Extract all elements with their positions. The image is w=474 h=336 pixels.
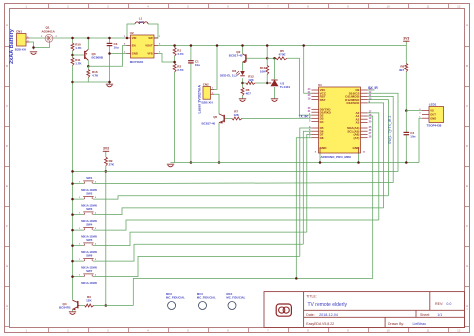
svg-text:GND: GND: [430, 116, 436, 120]
shunt reference U3 TL1431: [269, 80, 291, 89]
resistor R10: [71, 43, 74, 51]
wire C3 to ground: [109, 46, 111, 84]
resistor R1: [173, 48, 176, 57]
svg-text:RX_IR: RX_IR: [368, 86, 378, 90]
svg-text:10: 10: [386, 328, 390, 332]
wire 3V3 rail from U2 VOUT: [158, 45, 406, 47]
svg-text:VFB: VFB: [147, 52, 152, 56]
node C3 gnd: [108, 81, 111, 84]
svg-text:TITLE:: TITLE:: [306, 295, 317, 299]
svg-text:SW[1..7]+TX_IR 2: SW[1..7]+TX_IR 2: [388, 116, 392, 144]
transistor Q2 BC817-40 npn: [229, 50, 246, 63]
svg-text:2xAA Battery: 2xAA Battery: [9, 28, 15, 64]
svg-text:11: 11: [426, 4, 429, 8]
svg-text:12: 12: [457, 328, 461, 332]
svg-text:MC_FIDUCIAL: MC_FIDUCIAL: [226, 296, 245, 300]
svg-text:F: F: [6, 224, 8, 228]
node Q1 gate / gnd: [32, 46, 35, 49]
wire Q1 gate: [34, 43, 50, 47]
wire arduino GND pin right: [358, 153, 360, 163]
svg-text:D4: D4: [320, 120, 324, 124]
wire battery+ CN1 to Q1: [30, 37, 45, 39]
IR receiver LED1 TSOP4438: [419, 102, 443, 127]
resistor R3: [85, 304, 94, 307]
inductor L1: [135, 22, 148, 24]
node Q3 collector / R16 / EN: [87, 65, 90, 68]
svg-text:MC_FIDUCIAL: MC_FIDUCIAL: [166, 296, 185, 300]
wire VIN node to L1: [127, 24, 135, 38]
node rail C3: [108, 37, 111, 40]
logo mark: [276, 304, 291, 316]
svg-text:ARDUINO_PRO_MINI: ARDUINO_PRO_MINI: [321, 155, 351, 159]
node rail R10: [71, 37, 74, 40]
node gnd arduino2: [357, 161, 360, 164]
svg-text:U2: U2: [130, 31, 134, 35]
svg-text:0.0: 0.0: [446, 302, 451, 306]
svg-text:B2B-XH: B2B-XH: [15, 48, 26, 52]
ground U3: [271, 99, 278, 102]
svg-text:U1: U1: [318, 83, 322, 87]
node R9 common line: [105, 170, 108, 173]
wire R6 to ground: [242, 96, 244, 99]
svg-text:CN1: CN1: [16, 29, 22, 33]
svg-text:SW1: SW1: [86, 176, 93, 180]
node bus SW1: [71, 182, 74, 185]
svg-text:2.7K: 2.7K: [177, 68, 184, 72]
node gnd arduino1: [319, 161, 322, 164]
resistor R2: [173, 64, 176, 73]
wire R13 to R12: [266, 75, 268, 84]
switch SW5 MX1A-11NW: [79, 238, 97, 254]
svg-text:SW6: SW6: [86, 254, 93, 258]
svg-text:Sheet:: Sheet:: [420, 313, 430, 317]
node bus / R16 return: [71, 81, 74, 84]
node bus SW4: [71, 229, 74, 232]
wire SW1 left: [73, 183, 85, 185]
switch SW4 MX1A-11NW: [79, 223, 97, 239]
svg-text:27K: 27K: [109, 162, 115, 166]
power flag 3V3 right: [403, 37, 409, 42]
node bus SW7: [71, 275, 74, 278]
svg-text:Laser 3V3/27mA: Laser 3V3/27mA: [198, 85, 202, 114]
resistor R5: [276, 57, 287, 60]
wire R12 right: [255, 82, 267, 84]
node R10/R11/Q3 base: [71, 54, 74, 57]
svg-text:4E7: 4E7: [399, 68, 405, 72]
svg-text:4.7K: 4.7K: [92, 73, 99, 77]
svg-text:(A7): (A7): [353, 136, 359, 140]
svg-text:EN: EN: [132, 44, 136, 48]
wire C1 to gnd line: [190, 63, 192, 163]
wire row SW6 jog: [93, 244, 303, 261]
wire rail to Q3 emitter: [87, 38, 89, 49]
svg-text:SW: SW: [148, 36, 153, 40]
transistor Q5 BC817-40 npn: [202, 114, 225, 125]
wire row SW7 jog: [93, 256, 300, 276]
wire rail to R10: [72, 38, 74, 43]
wire 3V3 rail to R8: [405, 46, 407, 64]
connector CN1 2xAA battery: [15, 29, 30, 51]
node rail C1: [190, 44, 193, 47]
svg-text:VIN: VIN: [132, 36, 137, 40]
svg-text:GND: GND: [320, 146, 328, 150]
node bus SW2: [71, 198, 74, 201]
wire row SW3 jog: [93, 208, 384, 215]
wire SW3 left: [73, 214, 85, 216]
switch SW6 MX1A-11NW: [79, 254, 97, 270]
wire Q3 collector: [87, 60, 89, 66]
node rail R1: [173, 44, 176, 47]
resistor R13: [266, 66, 269, 75]
wire Q2 emitter to D6: [242, 62, 244, 71]
svg-text:SW2: SW2: [86, 192, 93, 196]
wire Q5 emitter to gnd line: [218, 123, 220, 163]
wire rail to C1: [190, 46, 192, 61]
svg-text:D13/SCK: D13/SCK: [347, 101, 361, 105]
title block: [264, 292, 465, 328]
wire U2 GND pin: [110, 53, 127, 55]
resistor R16: [87, 70, 90, 78]
wire SW6 left: [73, 260, 85, 262]
svg-text:GND: GND: [132, 52, 138, 56]
capacitor C1: [188, 61, 194, 63]
svg-text:11: 11: [426, 328, 429, 332]
node C1 gnd: [190, 161, 193, 164]
svg-text:TV remote elderly: TV remote elderly: [308, 302, 348, 308]
svg-text:TX_IR: TX_IR: [299, 115, 309, 119]
node Q2 base / R5 / R13: [266, 57, 269, 60]
node bus SW6: [71, 260, 74, 263]
svg-text:1.7K: 1.7K: [75, 61, 82, 65]
svg-text:470E: 470E: [278, 53, 285, 57]
ground battery: [30, 52, 37, 55]
wire row SW1: [93, 183, 393, 184]
svg-text:Drawn By:: Drawn By:: [388, 322, 404, 326]
node VS / C4: [405, 109, 408, 112]
svg-text:12K: 12K: [86, 299, 92, 303]
wire node to R5: [267, 57, 276, 59]
svg-text:VOUT: VOUT: [145, 44, 153, 48]
svg-text:3V3: 3V3: [403, 37, 409, 41]
wire row SW2 riser to D12: [368, 100, 389, 196]
svg-text:A: A: [466, 23, 468, 27]
svg-text:REV:: REV:: [435, 302, 443, 306]
transistor Q1 AO3401A pmos: [41, 26, 58, 44]
svg-text:BC817-40: BC817-40: [202, 121, 216, 125]
wire arduino GND pin left: [319, 153, 321, 163]
svg-text:TL1431: TL1431: [280, 85, 291, 89]
wire switch common bus: [72, 66, 74, 300]
ground U2 area: [106, 84, 113, 87]
wire main gnd line: [171, 162, 420, 164]
node rail laser: [216, 44, 219, 47]
node rail R13: [266, 44, 269, 47]
ground Q4: [69, 312, 76, 315]
resistor R11: [71, 58, 74, 66]
switch SW1 MX1A-11NW: [79, 176, 97, 192]
switch SW2 MX1A-11NW: [79, 192, 97, 208]
node Q5 gnd: [218, 161, 221, 164]
wire U3 anode to ground: [274, 87, 276, 99]
node R12 / R13: [266, 82, 269, 85]
svg-text:OUT: OUT: [430, 113, 436, 117]
wire row SW7 riser to D5: [300, 128, 312, 256]
wire R10 to R11: [72, 51, 74, 58]
svg-text:Date:: Date:: [306, 313, 314, 317]
resistor R12: [246, 82, 255, 85]
svg-text:LED1: LED1: [429, 102, 437, 106]
svg-text:12K: 12K: [233, 113, 239, 117]
wire rail to R1: [174, 46, 176, 48]
wire VS node to C4: [405, 111, 407, 133]
wire row SW3 riser to D13: [368, 103, 384, 208]
fiducial MC4: [226, 292, 245, 309]
node rail L1: [126, 37, 129, 40]
svg-text:TSOP4438: TSOP4438: [427, 124, 442, 128]
resistor R7: [232, 117, 242, 120]
wire SW4 left: [73, 229, 85, 231]
svg-text:10n: 10n: [410, 134, 415, 138]
wire 3V3 flag to R9: [105, 151, 107, 157]
svg-text:B: B: [6, 64, 8, 68]
wire CN1 pin2 to ground: [30, 42, 34, 50]
svg-text:1/1: 1/1: [437, 313, 442, 317]
wire row SW4 riser to A0: [368, 113, 379, 220]
wire Q5 base to R7: [225, 118, 232, 120]
svg-text:E: E: [6, 184, 8, 188]
svg-text:4.7K: 4.7K: [177, 52, 184, 56]
wire gnd line to TSOP GND: [419, 118, 422, 162]
svg-text:OED-EL 1L2: OED-EL 1L2: [220, 73, 238, 77]
LED D6 OED-EL-1L2: [220, 69, 245, 77]
svg-text:10: 10: [386, 4, 390, 8]
wire to U3 cathode: [274, 58, 276, 79]
ground main: [167, 164, 174, 167]
wire R1 to R2: [174, 56, 176, 64]
wire row SW5 jog: [93, 232, 307, 246]
wire row SW4 jog: [93, 220, 379, 230]
svg-text:B2B-XH: B2B-XH: [202, 101, 213, 105]
node VFB divider: [173, 61, 176, 64]
svg-text:B: B: [466, 64, 468, 68]
node R5 / U3: [273, 57, 276, 60]
svg-text:2018-12-04: 2018-12-04: [319, 313, 338, 317]
node U2 GND net: [108, 52, 111, 55]
wire divider to Q3 base: [73, 54, 84, 56]
resistor R8: [405, 64, 408, 72]
svg-text:12: 12: [457, 4, 461, 8]
wire stub to 3V3 flag: [405, 41, 407, 45]
svg-text:F: F: [466, 224, 468, 228]
node C4 gnd: [405, 161, 408, 164]
wire R2 to gnd line: [174, 72, 176, 163]
svg-text:AO3401A: AO3401A: [42, 29, 56, 33]
wire Q4 base to R3: [79, 305, 84, 307]
wire SW7 left: [73, 276, 85, 278]
wire row SW5 riser to D7: [307, 134, 312, 232]
svg-text:SW4: SW4: [86, 223, 93, 227]
connector CN2 laser: [202, 83, 215, 105]
fiducial MC3: [197, 292, 216, 309]
wire U2 VFB feedback: [158, 54, 175, 63]
fiducial MC2: [166, 292, 185, 309]
wire rail to C3: [109, 38, 111, 43]
wire R12 to D6 node: [243, 82, 247, 84]
svg-text:BC817-40: BC817-40: [229, 54, 243, 58]
wire rail to Q2 collector: [242, 46, 244, 54]
svg-text:D8: D8: [320, 136, 324, 140]
wire to TSOP VS pin: [406, 110, 422, 112]
svg-text:EasyEDA V5.8.22: EasyEDA V5.8.22: [306, 322, 334, 326]
wire Q4 emitter to ground: [72, 309, 74, 311]
svg-text:GND: GND: [353, 146, 361, 150]
wire SW5 left: [73, 245, 85, 247]
wire R5 to D2: [287, 58, 311, 115]
wire rail to R13: [266, 46, 268, 66]
module U1 ARDUINO_PRO_MINI: [308, 83, 372, 159]
wire laser CN2 pin1 to 3V3: [214, 46, 217, 90]
svg-text:10u: 10u: [114, 45, 119, 49]
svg-text:4u7: 4u7: [139, 20, 145, 24]
wire row SW2 jog: [93, 196, 388, 199]
svg-text:12K: 12K: [248, 78, 254, 82]
wire D9 RX_IR stub: [368, 89, 375, 91]
wire Q1 drain to U2 VIN: [54, 37, 127, 39]
wire node to R16: [87, 66, 89, 69]
svg-text:VS: VS: [430, 109, 434, 113]
node rail Q3: [87, 37, 90, 40]
switch SW3 MX1A-11NW: [79, 207, 97, 223]
wire C4 to gnd line: [405, 135, 407, 163]
svg-text:3V3: 3V3: [103, 147, 109, 151]
svg-text:MX1A-11NW: MX1A-11NW: [81, 281, 97, 285]
svg-text:SW5: SW5: [86, 238, 93, 242]
node bus SW3: [71, 213, 74, 216]
svg-text:SW3: SW3: [86, 207, 93, 211]
node rail VCC: [302, 44, 305, 47]
svg-text:10u: 10u: [195, 63, 200, 67]
wire L1 to U2 SW: [148, 24, 158, 38]
node R9 R3 line: [105, 304, 108, 307]
svg-text:E: E: [466, 184, 468, 188]
node bus common: [71, 170, 74, 173]
node rail Q2: [241, 44, 244, 47]
resistor R6: [241, 88, 244, 96]
wire Q3 collector to U2 EN: [88, 46, 126, 67]
svg-text:MC_FIDUCIAL: MC_FIDUCIAL: [197, 296, 216, 300]
wire R7 to D3 TX_IR: [242, 117, 311, 119]
node bus SW5: [71, 244, 74, 247]
svg-text:RST: RST: [320, 98, 326, 102]
wire SW2 left: [73, 198, 85, 200]
node D8 Q4 line: [295, 277, 298, 280]
wire row SW1 riser to D11: [368, 96, 394, 182]
wire R8 to TSOP VS: [405, 72, 407, 111]
wire row SW6 riser to D6: [303, 131, 311, 244]
wire D8 to Q4 line: [296, 138, 311, 279]
power flag 3V3 keys: [103, 147, 109, 152]
svg-text:BC847B: BC847B: [59, 306, 71, 310]
svg-text:CN2: CN2: [203, 83, 209, 87]
capacitor C4: [404, 132, 410, 134]
resistor R9: [105, 157, 108, 165]
svg-text:1.7K: 1.7K: [75, 46, 82, 50]
wire R3 to riser: [94, 305, 134, 307]
svg-text:BC808B: BC808B: [92, 55, 104, 59]
wire R16 to gnd line: [87, 78, 89, 83]
svg-text:A: A: [6, 23, 8, 27]
svg-text:4E7: 4E7: [246, 91, 252, 95]
capacitor C3: [107, 43, 113, 45]
wire D6 to R6: [242, 78, 244, 87]
svg-text:MCP1640: MCP1640: [130, 60, 144, 64]
ground D6 chain: [239, 99, 246, 102]
wire Q4 line to A1: [133, 116, 372, 306]
transistor Q3 BC808B pnp: [85, 49, 104, 60]
node D6 / R12: [241, 82, 244, 85]
transistor Q4 BC847B npn: [59, 300, 79, 310]
wire R9 column down to Q4 base line: [105, 166, 107, 306]
svg-text:Q5: Q5: [213, 115, 217, 119]
svg-text:10K: 10K: [260, 70, 266, 74]
wire common line to D10: [73, 93, 399, 171]
wire Q2 base to R13 node: [246, 57, 267, 59]
svg-text:SW7: SW7: [86, 269, 93, 273]
wire local gnd line: [73, 81, 110, 83]
wire laser CN2 pin2 to Q5 collector: [214, 94, 219, 114]
switch SW7 MX1A-11NW: [79, 269, 97, 285]
svg-text:LieBtrau: LieBtrau: [413, 322, 427, 326]
svg-text:A3: A3: [355, 121, 359, 125]
op-amp U2 MCP1640 boost converter: [124, 31, 161, 64]
wire 3V3 to VCC: [304, 46, 312, 94]
